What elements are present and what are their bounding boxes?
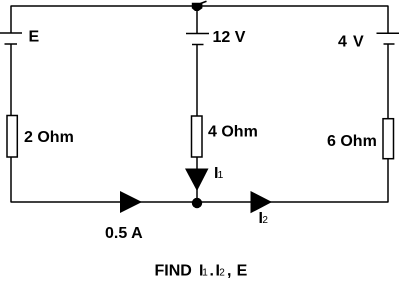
wire arrow to node xyxy=(196,188,198,200)
wire middle branch top xyxy=(196,8,198,34)
svg-text:E: E xyxy=(29,29,40,46)
svg-text:4 Ohm: 4 Ohm xyxy=(208,124,258,141)
battery 12V xyxy=(186,34,209,45)
current arrow 0.5 A xyxy=(120,191,142,213)
current arrow I2 xyxy=(251,191,273,213)
svg-text:0.5 A: 0.5 A xyxy=(105,225,143,242)
resistor R1 2 Ohm xyxy=(7,116,17,158)
wire right branch middle xyxy=(387,44,389,118)
battery 4V xyxy=(377,33,399,44)
resistor R3 6 Ohm xyxy=(383,119,394,159)
svg-text:I2: I2 xyxy=(259,210,269,227)
wire left branch bottom xyxy=(10,157,12,202)
current arrow I1 xyxy=(185,169,209,192)
wire bottom bus xyxy=(11,201,389,203)
svg-text:FINDI1.I2,E: FINDI1.I2,E xyxy=(155,263,248,280)
resistor R2 4 Ohm xyxy=(192,116,203,157)
wire right branch bottom xyxy=(387,158,389,202)
wire left branch middle xyxy=(10,44,12,116)
node top junction xyxy=(192,1,207,11)
svg-text:I1: I1 xyxy=(214,165,223,182)
wire left branch top xyxy=(10,6,12,33)
node bottom junction xyxy=(192,198,202,208)
svg-text:6 Ohm: 6 Ohm xyxy=(327,133,377,150)
wire middle branch lower xyxy=(196,157,198,170)
svg-text:4V: 4V xyxy=(338,34,364,51)
wire right branch top xyxy=(387,6,389,33)
battery E xyxy=(0,33,22,44)
svg-text:12 V: 12 V xyxy=(213,29,246,46)
wire top bus xyxy=(11,5,389,7)
wire middle branch middle xyxy=(196,45,198,117)
svg-text:2 Ohm: 2 Ohm xyxy=(24,129,74,146)
